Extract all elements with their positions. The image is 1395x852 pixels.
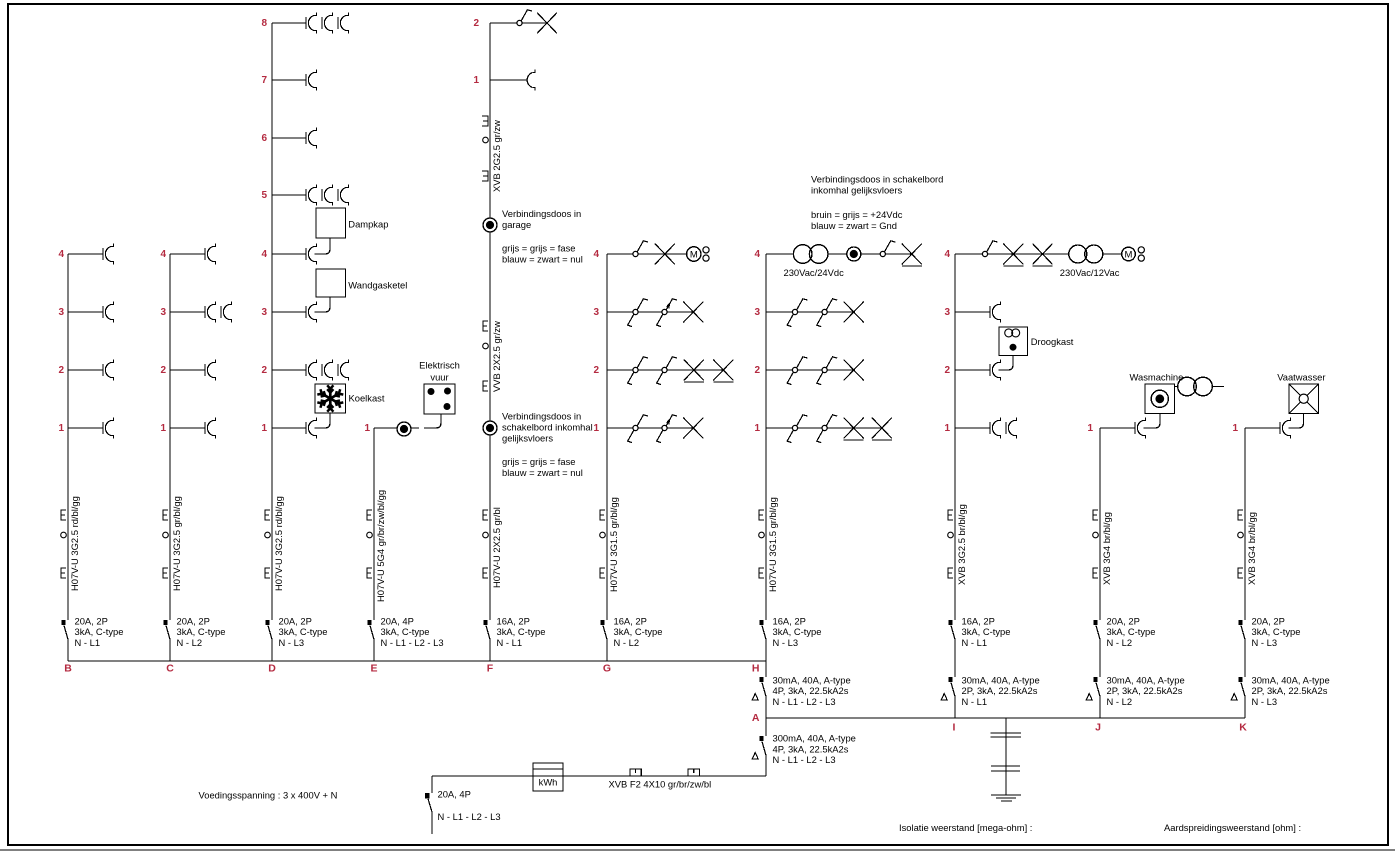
svg-text:300mA, 40A, A-type: 300mA, 40A, A-type — [773, 733, 856, 744]
svg-text:3: 3 — [160, 307, 166, 318]
svg-text:3kA, C-type: 3kA, C-type — [279, 626, 328, 637]
svg-text:inkomhal gelijksvloers: inkomhal gelijksvloers — [811, 185, 902, 196]
svg-text:230Vac/24Vdc: 230Vac/24Vdc — [784, 267, 845, 278]
svg-text:N - L1: N - L1 — [962, 696, 988, 707]
svg-text:M: M — [690, 249, 698, 260]
svg-text:Verbindingsdoos in: Verbindingsdoos in — [502, 410, 581, 421]
svg-text:XVB 2G2.5 gr/zw: XVB 2G2.5 gr/zw — [491, 120, 502, 192]
svg-text:16A, 2P: 16A, 2P — [773, 615, 806, 626]
svg-text:4P, 3kA, 22.5kA2s: 4P, 3kA, 22.5kA2s — [773, 743, 849, 754]
svg-text:N - L2: N - L2 — [614, 637, 640, 648]
svg-text:Vaatwasser: Vaatwasser — [1277, 371, 1325, 382]
svg-text:N - L1 - L2 - L3: N - L1 - L2 - L3 — [773, 754, 836, 765]
svg-text:N - L1 - L2 - L3: N - L1 - L2 - L3 — [438, 811, 501, 822]
svg-text:N - L1: N - L1 — [75, 637, 101, 648]
svg-text:4P, 3kA, 22.5kA2s: 4P, 3kA, 22.5kA2s — [773, 685, 849, 696]
svg-text:20A, 2P: 20A, 2P — [177, 615, 210, 626]
svg-text:blauw = zwart = Gnd: blauw = zwart = Gnd — [811, 220, 897, 231]
svg-text:3: 3 — [58, 307, 64, 318]
svg-text:H07V-U 3G2.5 rd/bl/gg: H07V-U 3G2.5 rd/bl/gg — [69, 496, 80, 591]
svg-text:1: 1 — [261, 423, 267, 434]
svg-text:Wasmachine: Wasmachine — [1130, 371, 1184, 382]
svg-text:2: 2 — [261, 365, 267, 376]
svg-text:2: 2 — [160, 365, 166, 376]
svg-text:3kA, C-type: 3kA, C-type — [1252, 626, 1301, 637]
svg-text:1: 1 — [58, 423, 64, 434]
svg-text:3: 3 — [593, 307, 599, 318]
svg-text:N - L3: N - L3 — [1252, 637, 1278, 648]
svg-text:3kA, C-type: 3kA, C-type — [614, 626, 663, 637]
svg-text:XVB 3G2.5 br/bl/gg: XVB 3G2.5 br/bl/gg — [956, 504, 967, 585]
svg-text:grijs = grijs = fase: grijs = grijs = fase — [502, 242, 575, 253]
svg-text:1: 1 — [364, 423, 370, 434]
svg-text:grijs = grijs = fase: grijs = grijs = fase — [502, 456, 575, 467]
svg-text:E: E — [370, 663, 377, 675]
svg-text:XVB 3G4 br/bl/gg: XVB 3G4 br/bl/gg — [1246, 512, 1257, 585]
svg-text:30mA, 40A, A-type: 30mA, 40A, A-type — [1107, 674, 1185, 685]
svg-text:H07V-U 5G4 gr/br/zw/bl/gg: H07V-U 5G4 gr/br/zw/bl/gg — [375, 490, 386, 602]
svg-text:Elektrisch: Elektrisch — [419, 359, 460, 370]
svg-text:2: 2 — [58, 365, 64, 376]
svg-text:3kA, C-type: 3kA, C-type — [75, 626, 124, 637]
svg-text:5: 5 — [261, 190, 267, 201]
svg-text:3kA, C-type: 3kA, C-type — [1107, 626, 1156, 637]
svg-text:3kA, C-type: 3kA, C-type — [497, 626, 546, 637]
svg-text:1: 1 — [473, 75, 479, 86]
svg-text:7: 7 — [261, 75, 267, 86]
svg-text:16A, 2P: 16A, 2P — [497, 615, 530, 626]
svg-text:2P, 3kA, 22.5kA2s: 2P, 3kA, 22.5kA2s — [1107, 685, 1183, 696]
svg-text:20A, 2P: 20A, 2P — [1107, 615, 1140, 626]
svg-text:B: B — [64, 663, 72, 675]
svg-text:1: 1 — [160, 423, 166, 434]
svg-text:30mA, 40A, A-type: 30mA, 40A, A-type — [773, 674, 851, 685]
svg-text:M: M — [1125, 249, 1133, 260]
svg-text:1: 1 — [1232, 423, 1238, 434]
svg-text:16A, 2P: 16A, 2P — [962, 615, 995, 626]
svg-text:4: 4 — [58, 249, 64, 260]
svg-text:6: 6 — [261, 133, 267, 144]
svg-text:4: 4 — [593, 249, 599, 260]
svg-text:H: H — [752, 663, 760, 675]
svg-text:H07V-U 2X2.5 gr/bl: H07V-U 2X2.5 gr/bl — [491, 507, 502, 588]
svg-text:30mA, 40A, A-type: 30mA, 40A, A-type — [962, 674, 1040, 685]
svg-text:kWh: kWh — [539, 777, 558, 788]
svg-text:Wandgasketel: Wandgasketel — [348, 279, 407, 290]
svg-text:2P, 3kA, 22.5kA2s: 2P, 3kA, 22.5kA2s — [1252, 685, 1328, 696]
svg-text:N - L2: N - L2 — [177, 637, 203, 648]
svg-text:3: 3 — [754, 307, 760, 318]
svg-text:J: J — [1095, 722, 1101, 734]
svg-text:20A, 2P: 20A, 2P — [279, 615, 312, 626]
svg-text:3kA, C-type: 3kA, C-type — [381, 626, 430, 637]
svg-text:G: G — [603, 663, 611, 675]
svg-text:N - L3: N - L3 — [279, 637, 305, 648]
svg-text:N - L1: N - L1 — [497, 637, 523, 648]
svg-text:Aardspreidingsweerstand [ohm]: Aardspreidingsweerstand [ohm] : — [1164, 822, 1301, 833]
svg-text:N - L1 - L2 - L3: N - L1 - L2 - L3 — [381, 637, 444, 648]
svg-text:C: C — [166, 663, 174, 675]
svg-text:Verbindingsdoos in: Verbindingsdoos in — [502, 208, 581, 219]
svg-text:Dampkap: Dampkap — [348, 219, 388, 230]
svg-text:1: 1 — [944, 423, 950, 434]
svg-text:N - L3: N - L3 — [1252, 696, 1278, 707]
svg-text:Koelkast: Koelkast — [349, 393, 385, 404]
svg-text:gelijksvloers: gelijksvloers — [502, 432, 553, 443]
svg-text:1: 1 — [1087, 423, 1093, 434]
svg-text:N - L3: N - L3 — [773, 637, 799, 648]
svg-text:N - L2: N - L2 — [1107, 696, 1133, 707]
svg-text:3kA, C-type: 3kA, C-type — [962, 626, 1011, 637]
svg-text:I: I — [953, 722, 956, 734]
svg-text:1: 1 — [593, 423, 599, 434]
svg-text:20A, 4P: 20A, 4P — [438, 789, 471, 800]
svg-text:30mA, 40A, A-type: 30mA, 40A, A-type — [1252, 674, 1330, 685]
svg-text:blauw = zwart = nul: blauw = zwart = nul — [502, 467, 583, 478]
svg-text:1: 1 — [754, 423, 760, 434]
svg-text:2: 2 — [593, 365, 599, 376]
svg-text:schakelbord inkomhal: schakelbord inkomhal — [502, 421, 593, 432]
svg-text:3: 3 — [944, 307, 950, 318]
svg-text:N - L1: N - L1 — [962, 637, 988, 648]
svg-text:2: 2 — [754, 365, 760, 376]
svg-text:16A, 2P: 16A, 2P — [614, 615, 647, 626]
svg-text:vuur: vuur — [430, 371, 448, 382]
svg-text:3kA, C-type: 3kA, C-type — [773, 626, 822, 637]
svg-text:2: 2 — [473, 18, 479, 29]
svg-text:230Vac/12Vac: 230Vac/12Vac — [1060, 267, 1120, 278]
svg-text:Isolatie weerstand [mega-ohm]: Isolatie weerstand [mega-ohm] : — [899, 822, 1032, 833]
svg-text:N - L2: N - L2 — [1107, 637, 1133, 648]
svg-text:XVB 3G4 br/bl/gg: XVB 3G4 br/bl/gg — [1101, 512, 1112, 585]
svg-text:bruin = grijs = +24Vdc: bruin = grijs = +24Vdc — [811, 209, 903, 220]
svg-text:H07V-U 3G2.5 gr/bl/gg: H07V-U 3G2.5 gr/bl/gg — [171, 496, 182, 591]
svg-text:N - L1 - L2 - L3: N - L1 - L2 - L3 — [773, 696, 836, 707]
svg-text:2: 2 — [944, 365, 950, 376]
svg-text:F: F — [487, 663, 494, 675]
svg-text:3: 3 — [261, 307, 267, 318]
svg-text:blauw = zwart = nul: blauw = zwart = nul — [502, 253, 583, 264]
svg-text:4: 4 — [754, 249, 760, 260]
svg-text:A: A — [752, 712, 760, 724]
svg-text:H07V-U 3G2.5 rd/bl/gg: H07V-U 3G2.5 rd/bl/gg — [273, 496, 284, 591]
svg-text:H07V-U 3G1.5 gr/bl/gg: H07V-U 3G1.5 gr/bl/gg — [767, 497, 778, 592]
svg-text:20A, 2P: 20A, 2P — [1252, 615, 1285, 626]
svg-text:8: 8 — [261, 18, 267, 29]
svg-text:H07V-U 3G1.5 gr/bl/gg: H07V-U 3G1.5 gr/bl/gg — [608, 497, 619, 592]
svg-text:VVB 2X2.5 gr/zw: VVB 2X2.5 gr/zw — [491, 321, 502, 392]
svg-text:Voedingsspanning : 3 x 400V +: Voedingsspanning : 3 x 400V + N — [199, 790, 338, 801]
svg-text:Verbindingsdoos in schakelbord: Verbindingsdoos in schakelbord — [811, 174, 943, 185]
svg-text:XVB F2 4X10 gr/br/zw/bl: XVB F2 4X10 gr/br/zw/bl — [609, 778, 712, 789]
svg-text:Droogkast: Droogkast — [1031, 336, 1074, 347]
svg-text:2P, 3kA, 22.5kA2s: 2P, 3kA, 22.5kA2s — [962, 685, 1038, 696]
svg-text:K: K — [1239, 722, 1247, 734]
svg-text:3kA, C-type: 3kA, C-type — [177, 626, 226, 637]
svg-text:D: D — [268, 663, 276, 675]
svg-text:4: 4 — [261, 249, 267, 260]
svg-text:20A, 2P: 20A, 2P — [75, 615, 108, 626]
svg-text:garage: garage — [502, 219, 531, 230]
svg-text:4: 4 — [944, 249, 950, 260]
svg-text:20A, 4P: 20A, 4P — [381, 615, 414, 626]
svg-text:4: 4 — [160, 249, 166, 260]
